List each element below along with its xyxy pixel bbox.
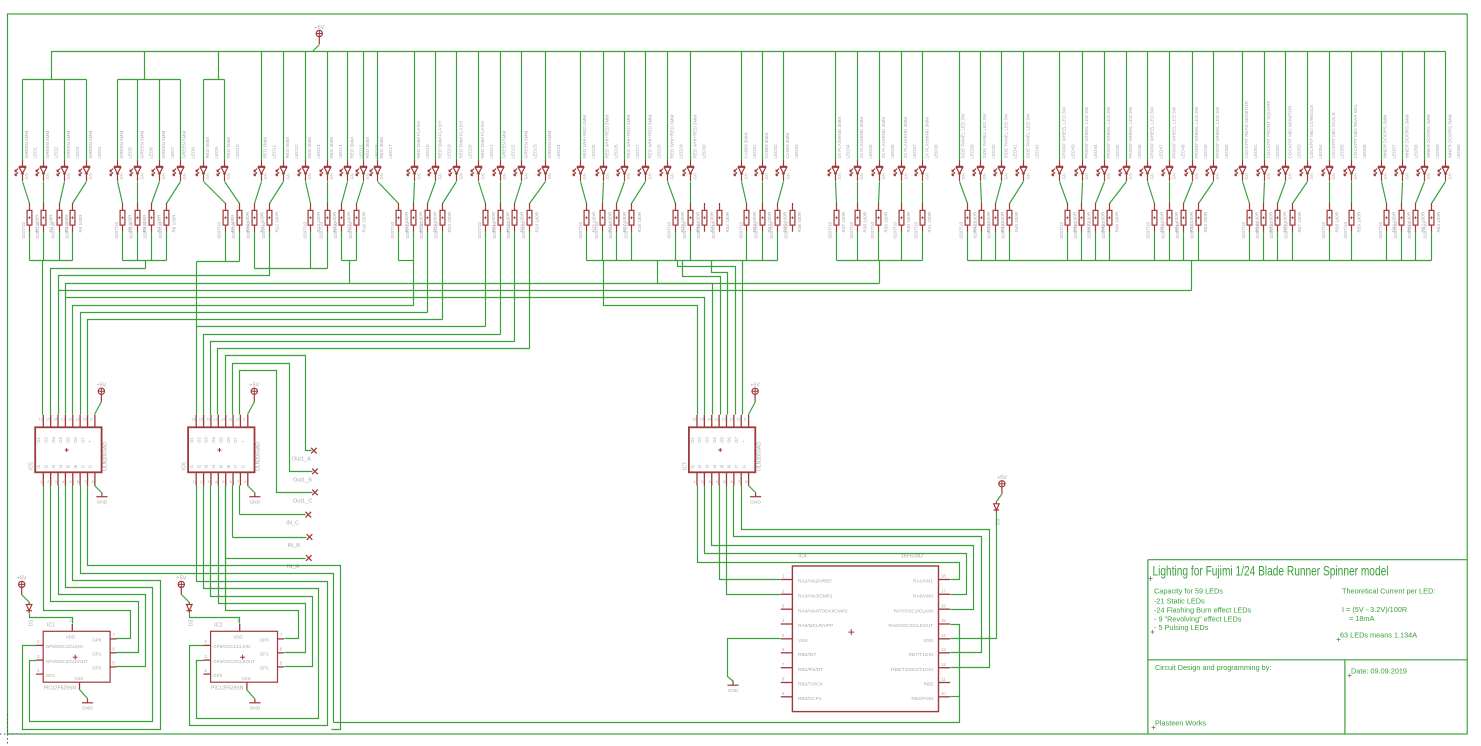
wire LED3 column (64, 80, 66, 161)
LED LED24 (538, 131, 561, 181)
wire net IC5 pin5 line (73, 306, 414, 415)
wire LED11 column (261, 52, 263, 161)
wire LED27 column (624, 52, 626, 161)
wire main LED supply bus (52, 52, 1446, 80)
svg-text:R41 100R: R41 100R (927, 211, 932, 232)
svg-text:0207/10: 0207/10 (623, 221, 628, 238)
wire bus S1 (R1-R4) (30, 260, 73, 262)
svg-text:LED35: LED35 (868, 144, 873, 158)
svg-text:GN: GN (66, 173, 71, 179)
svg-text:GN: GN (263, 173, 268, 179)
svg-text:RA7/OSC1/CLKIN: RA7/OSC1/CLKIN (894, 608, 934, 614)
svg-text:IC1: IC1 (47, 623, 55, 629)
wire LED52 column (1264, 52, 1266, 161)
LED LED22 (493, 131, 516, 181)
wire LED1 column (22, 80, 24, 161)
wire IC5 out2 to IC1 GP1 (51, 486, 139, 653)
wire R7 bottom stub (151, 232, 153, 261)
svg-text:0207/10: 0207/10 (1059, 221, 1064, 238)
node Out1_C (312, 490, 318, 496)
LED LED6 (130, 131, 153, 181)
svg-text:IN_B: IN_B (288, 543, 301, 549)
wire net IC5 pin7 line (88, 320, 443, 415)
svg-text:0207/10: 0207/10 (419, 221, 424, 238)
wire LED57 column (1381, 52, 1383, 161)
svg-text:0207/10: 0207/10 (870, 221, 875, 238)
wire +5V to diode D2 (182, 595, 190, 603)
resistor R2 100R (35, 203, 54, 239)
LED LED16 (356, 137, 379, 181)
svg-text:LED41: LED41 (1012, 144, 1017, 158)
LED LED2 (36, 131, 59, 181)
supply +5V for IC5 (98, 388, 105, 402)
ground GND of IC6 (248, 486, 255, 493)
svg-text:13: 13 (714, 417, 719, 422)
svg-text:GND: GND (82, 706, 93, 712)
wire LED28 to resistor (632, 182, 646, 204)
svg-text:GN: GN (45, 173, 50, 179)
wire +5V to COM pin (749, 402, 756, 415)
svg-text:GN: GN (226, 173, 231, 179)
svg-text:GN: GN (925, 173, 930, 179)
resistor R13 100R (302, 203, 321, 239)
diode D1 1N4148 (26, 602, 32, 613)
svg-text:SIDE PANEL LED 3W: SIDE PANEL LED 3W (1026, 113, 1031, 159)
wire LED25 column (580, 52, 582, 161)
svg-text:LED31: LED31 (752, 144, 757, 158)
svg-text:LED49: LED49 (1203, 144, 1208, 158)
supply +5V for IC6 (251, 388, 258, 402)
svg-text:0207/10: 0207/10 (114, 221, 119, 238)
svg-text:COCKPIT MID SCALE: COCKPIT MID SCALE (1331, 112, 1336, 158)
wire LED19 to resistor (428, 182, 436, 204)
svg-text:I5: I5 (66, 464, 71, 468)
wire sub-bus group A (23, 79, 87, 81)
svg-text:LED54: LED54 (1318, 144, 1323, 158)
wire LED33 column (783, 52, 785, 161)
wire LED57 to resistor (1382, 182, 1387, 204)
wire LED36 column (879, 52, 881, 161)
svg-text:GND: GND (249, 500, 260, 506)
wire LED38 to resistor (922, 182, 924, 204)
resistor R56 100R (1269, 203, 1288, 239)
LED LED18 (407, 121, 430, 181)
svg-text:LED11: LED11 (272, 144, 277, 158)
svg-text:LED59: LED59 (1435, 144, 1440, 158)
svg-text:LED7: LED7 (170, 147, 175, 159)
resistor R43 100R (973, 203, 992, 239)
svg-text:O7: O7 (734, 437, 739, 443)
resistor R26 100R (594, 203, 613, 239)
svg-text:0207/10: 0207/10 (1284, 221, 1289, 238)
wire LED2 column (43, 80, 45, 161)
svg-text:0207/10: 0207/10 (754, 221, 759, 238)
svg-text:GN: GN (605, 173, 610, 179)
resistor R24 100R (521, 203, 540, 239)
svg-text:GREEN 5MM: GREEN 5MM (524, 131, 529, 159)
LED LED7 (152, 131, 175, 181)
wire LED34 to resistor (836, 182, 837, 204)
wire LED16 to resistor (357, 182, 364, 204)
resistor R28 100R (623, 203, 642, 239)
svg-text:0207/10: 0207/10 (986, 221, 991, 238)
svg-text:LED48: LED48 (1181, 144, 1186, 158)
svg-text:I3: I3 (51, 464, 56, 468)
resistor R16 100R (348, 203, 367, 239)
resistor R39 100R (870, 203, 889, 239)
svg-text:+: + (241, 440, 246, 443)
wire R60 bottom stub (1386, 232, 1388, 261)
svg-text:RED 3MM: RED 3MM (365, 137, 370, 158)
svg-text:GN: GN (119, 173, 124, 179)
svg-text:GN: GN (502, 173, 507, 179)
svg-text:RED WHI+RED 3MM: RED WHI+RED 3MM (582, 115, 587, 159)
svg-text:0207/10: 0207/10 (390, 221, 395, 238)
wire LED32 to resistor (762, 182, 764, 204)
svg-text:0207/10: 0207/10 (1393, 221, 1398, 238)
node IN_C (306, 512, 312, 518)
resistor R46 100R (1059, 203, 1078, 239)
svg-text:2X FLASHING 3MM: 2X FLASHING 3MM (903, 117, 908, 159)
LED LED34 (828, 117, 851, 181)
svg-text:GN: GN (1383, 173, 1388, 179)
svg-text:+5V: +5V (314, 25, 324, 31)
wire LED52 to resistor (1264, 182, 1265, 204)
svg-text:LED20: LED20 (468, 144, 473, 158)
svg-text:LED56: LED56 (1362, 144, 1367, 158)
svg-text:Circuit Design and programming: Circuit Design and programming by: (1155, 663, 1271, 672)
LED LED56 (1344, 103, 1367, 181)
svg-text:RA6/OSC2/CLKOUT: RA6/OSC2/CLKOUT (888, 623, 933, 629)
svg-text:14: 14 (206, 417, 211, 422)
wire LED10 column (224, 80, 226, 161)
ground GND of IC4 (727, 681, 738, 685)
wire net IC6 pin6 to Out1_B (233, 364, 313, 472)
svg-text:16: 16 (692, 417, 697, 422)
wire R20 bottom stub (442, 232, 444, 320)
svg-text:GN: GN (459, 173, 464, 179)
wire IC4 pin10 tap (951, 696, 960, 698)
svg-text:LED39: LED39 (970, 144, 975, 158)
wire LED36 to resistor (879, 182, 880, 204)
wire LED24 column (545, 52, 547, 161)
wire LED17 column (377, 52, 379, 161)
resistor R9 100R (217, 203, 236, 239)
wire LED20 column (456, 52, 458, 161)
wire LED59 column (1424, 52, 1426, 161)
svg-text:LED57: LED57 (1392, 144, 1397, 158)
svg-text:GN: GN (480, 173, 485, 179)
wire R18 bottom stub (413, 232, 415, 261)
svg-text:IC2: IC2 (214, 623, 222, 629)
svg-text:COCKPIT REAR MONITOR: COCKPIT REAR MONITOR (1244, 101, 1249, 159)
svg-text:SIDE PANEL LED 3W: SIDE PANEL LED 3W (1004, 113, 1009, 159)
resistor R5 100R (114, 203, 133, 239)
IC IC4 PIC16F628 microcontroller (781, 566, 950, 712)
wire LED31 to resistor (742, 182, 747, 204)
wire IC6 out3 to IC2 GP2 (211, 486, 313, 667)
svg-text:0207/10: 0207/10 (302, 221, 307, 238)
LED LED26 (596, 115, 619, 181)
wire LED7 column (159, 80, 161, 161)
svg-text:FRONT WHEEL LED 3W: FRONT WHEEL LED 3W (1128, 106, 1133, 158)
svg-text:RB2/TX/CK: RB2/TX/CK (798, 682, 824, 688)
wire LED24 to resistor (530, 182, 546, 204)
svg-text:Out1_A: Out1_A (292, 457, 311, 463)
wire LED14 to resistor (327, 182, 329, 204)
wire R49 bottom stub (1109, 232, 1111, 261)
wire IN_B stub (233, 537, 307, 539)
wire LED42 to resistor (1010, 182, 1024, 204)
wire R4 bottom stub (72, 232, 74, 261)
svg-text:GN: GN (307, 173, 312, 179)
svg-text:GN: GN (379, 173, 384, 179)
svg-text:GN: GN (785, 173, 790, 179)
wire LED58 to resistor (1402, 182, 1403, 204)
svg-text:0207/10: 0207/10 (246, 221, 251, 238)
LED LED42 (1016, 113, 1040, 181)
svg-text:GN: GN (1447, 173, 1452, 179)
wire LED22 to resistor (500, 182, 502, 204)
wire diode D1 to VDD (30, 614, 73, 624)
wire bus S3 (R9-R10) (197, 261, 240, 263)
svg-text:RA1/AN1: RA1/AN1 (913, 579, 933, 585)
svg-text:GN: GN (648, 173, 653, 179)
svg-text:GND: GND (728, 688, 739, 694)
svg-text:0207/10: 0207/10 (1087, 221, 1092, 238)
ground GND of IC1 (80, 690, 88, 699)
node IN_A (306, 555, 312, 561)
resistor R19 100R (419, 203, 438, 239)
svg-text:VSS: VSS (74, 676, 83, 681)
svg-text:GN: GN (416, 173, 421, 179)
resistor R40 100R (892, 203, 911, 239)
wire IC7 in6 loop to IC4 pin13 (734, 486, 982, 653)
resistor R50 100R (1146, 203, 1165, 239)
wire LED23 column (521, 52, 523, 161)
title block notes left (1154, 587, 1252, 633)
svg-text:GN: GN (1266, 173, 1271, 179)
wire LED3 to resistor (60, 182, 65, 204)
svg-text:GREEN 5MM: GREEN 5MM (66, 131, 71, 159)
svg-text:LED36: LED36 (890, 144, 895, 158)
svg-text:0207/10: 0207/10 (21, 221, 26, 238)
wire LED8 column (180, 80, 182, 161)
svg-text:LED4: LED4 (97, 147, 102, 159)
svg-text:IN_A: IN_A (287, 564, 300, 570)
LED LED58 (1395, 114, 1418, 181)
svg-text:R40 100R: R40 100R (906, 211, 911, 232)
svg-text:0207/10: 0207/10 (158, 221, 163, 238)
svg-text:R49 100R: R49 100R (1114, 211, 1119, 232)
svg-text:G: G (88, 465, 93, 469)
svg-text:GN: GN (1004, 173, 1009, 179)
wire R61 bottom stub (1401, 232, 1403, 261)
svg-text:I3: I3 (204, 464, 209, 468)
wire net IC5 pin6 line (81, 313, 428, 415)
svg-text:11: 11 (941, 677, 946, 682)
wire sub-bus group B drop (144, 52, 146, 80)
svg-text:2X FLASHING 3MM: 2X FLASHING 3MM (837, 117, 842, 159)
wire LED8 to resistor (167, 182, 181, 204)
LED LED19 (428, 121, 451, 181)
wire R45 bottom stub (1009, 232, 1011, 261)
svg-text:R4 100R: R4 100R (78, 214, 83, 233)
wire LED20 to resistor (443, 182, 457, 204)
svg-text:I1: I1 (690, 464, 695, 468)
svg-text:O1: O1 (189, 437, 194, 443)
svg-text:COCKPIT MID MONITOR: COCKPIT MID MONITOR (1287, 105, 1292, 159)
svg-text:0207/10: 0207/10 (492, 221, 497, 238)
wire LED2 to resistor (43, 182, 45, 204)
svg-text:GN: GN (24, 173, 29, 179)
svg-text:CABIN 3MM: CABIN 3MM (743, 133, 748, 159)
svg-text:0207/10: 0207/10 (348, 221, 353, 238)
wire R47 bottom stub (1081, 232, 1083, 261)
wire feed S2 drop (145, 261, 147, 269)
wire net IC5 pin4 line (66, 284, 880, 415)
wire LED48 to resistor (1169, 182, 1171, 204)
svg-text:GREEN 5MM: GREEN 5MM (45, 131, 50, 159)
svg-text:LED23: LED23 (532, 144, 537, 158)
supply +5V for IC1 (18, 581, 25, 595)
resistor R12 100R (261, 203, 280, 239)
svg-text:RB1/RX/DT: RB1/RX/DT (798, 667, 823, 673)
svg-text:GND: GND (250, 706, 261, 712)
resistor R29 100R (667, 203, 686, 239)
resistor R38 100R (849, 203, 868, 239)
LED LED57 (1374, 114, 1397, 181)
resistor R21 100R (477, 203, 496, 239)
wire bus S11 (right resistor bank) (968, 260, 1432, 262)
resistor R51 100R (1160, 203, 1179, 239)
svg-text:R45 100R: R45 100R (1014, 211, 1019, 232)
svg-text:VDD: VDD (233, 635, 243, 640)
wire LED50 column (1213, 52, 1215, 161)
svg-text:I7: I7 (233, 464, 238, 468)
svg-text:LED46: LED46 (1137, 144, 1142, 158)
LED LED51 (1235, 101, 1258, 181)
svg-text:2X FLASHING 3MM: 2X FLASHING 3MM (924, 117, 929, 159)
svg-text:RB6/T1OSO/T1CKI: RB6/T1OSO/T1CKI (891, 667, 933, 673)
svg-text:0207/10: 0207/10 (64, 221, 69, 238)
svg-text:COCKPIT MID REAR WAL: COCKPIT MID REAR WAL (1353, 103, 1358, 159)
wire R57 bottom stub (1292, 232, 1294, 261)
svg-text:0207/10: 0207/10 (892, 221, 897, 238)
node IN_B (307, 534, 313, 540)
LED LED32 (755, 133, 778, 181)
svg-text:R59 100R: R59 100R (1357, 211, 1362, 232)
ground GND of IC2 (247, 690, 255, 699)
svg-text:LED33: LED33 (794, 144, 799, 158)
wire LED40 to resistor (981, 182, 982, 204)
wire LED28 column (645, 52, 647, 161)
svg-text:10: 10 (941, 691, 946, 696)
svg-text:13: 13 (61, 417, 66, 422)
svg-text:O4: O4 (58, 437, 63, 443)
svg-text:GN: GN (350, 173, 355, 179)
wire LED16 column (363, 52, 365, 161)
svg-text:GN: GN (582, 173, 587, 179)
svg-text:I = (5V - 3.2V)/100R: I = (5V - 3.2V)/100R (1342, 605, 1407, 614)
svg-text:LED50: LED50 (1224, 144, 1229, 158)
svg-text:R12 100R: R12 100R (274, 211, 279, 232)
LED LED49 (1185, 106, 1208, 181)
svg-text:0207/10: 0207/10 (1255, 221, 1260, 238)
wire R23 bottom stub (514, 232, 516, 342)
svg-text:LED44: LED44 (1093, 144, 1098, 158)
svg-text:RED WHI+RED 3MM: RED WHI+RED 3MM (626, 115, 631, 159)
svg-text:LED15: LED15 (359, 144, 364, 158)
wire LED47 column (1147, 52, 1149, 161)
wire R58 bottom stub (1329, 232, 1331, 261)
svg-text:GREEN 5MM: GREEN 5MM (119, 131, 124, 159)
wire IC6 out4 to IC2 GP1 (219, 486, 306, 653)
wire R40 bottom stub (901, 232, 903, 261)
wire LED43 column (1059, 52, 1061, 161)
wire LED37 column (901, 52, 903, 161)
svg-text:+: + (88, 440, 93, 443)
wire LED37 to resistor (901, 182, 903, 204)
svg-text:LED26: LED26 (614, 144, 619, 158)
wire R21 bottom stub (485, 232, 487, 327)
svg-text:O7: O7 (233, 437, 238, 443)
wire LED13 column (305, 52, 307, 161)
svg-text:GN: GN (285, 173, 290, 179)
svg-text:-21 Static LEDs: -21 Static LEDs (1154, 597, 1205, 606)
svg-text:I5: I5 (719, 464, 724, 468)
resistor R52 100R (1175, 203, 1194, 239)
svg-text:GN: GN (1106, 173, 1111, 179)
wire +5V to COM pin (95, 402, 102, 415)
svg-text:GND: GND (750, 500, 761, 506)
LED LED43 (1052, 106, 1076, 181)
LED LED46 (1119, 106, 1142, 181)
svg-text:GREEN 5MM: GREEN 5MM (502, 131, 507, 159)
wire IC6 pin6 down for IN_B (232, 486, 234, 538)
wire IC4 VSS to ground (728, 639, 781, 682)
wire R54 bottom stub (1249, 232, 1251, 261)
svg-text:INNER DOORS 3MM: INNER DOORS 3MM (1383, 114, 1388, 158)
svg-text:D1: D1 (28, 619, 34, 626)
wire LED4 column (86, 80, 88, 161)
svg-text:GN: GN (859, 173, 864, 179)
svg-text:+5V: +5V (249, 383, 259, 389)
wire net IC5 pin2 line (51, 269, 146, 415)
wire feed S3 to IC6 pin1 (196, 262, 198, 415)
wire IC5 out6 long line to bottom net (81, 486, 334, 723)
wire IN_A stub (226, 558, 306, 560)
wire LED14 column (327, 52, 329, 161)
resistor R6 100R (129, 203, 148, 239)
svg-text:R58 100R: R58 100R (1334, 211, 1339, 232)
wire R9 bottom stub (225, 232, 227, 262)
wire LED39 to resistor (960, 182, 968, 204)
svg-text:LED58: LED58 (1413, 144, 1418, 158)
wire R13 bottom stub (310, 232, 312, 269)
svg-text:R32 100R: R32 100R (725, 211, 730, 232)
LED LED14 (320, 137, 343, 181)
svg-text:LED29: LED29 (678, 144, 683, 158)
svg-text:RED WHI+RED 3MM: RED WHI+RED 3MM (605, 115, 610, 159)
svg-text:I1: I1 (189, 464, 194, 468)
svg-text:ULN2003AD: ULN2003AD (256, 442, 262, 471)
wire LED26 column (603, 52, 605, 161)
svg-text:Lighting for Fujimi 1/24 Blade: Lighting for Fujimi 1/24 Blade Runner Sp… (1153, 563, 1389, 578)
wire LED6 column (137, 80, 139, 161)
wire net IC7 pin1 feed (604, 261, 698, 415)
wire net IC7 pin3 feed (658, 261, 713, 415)
